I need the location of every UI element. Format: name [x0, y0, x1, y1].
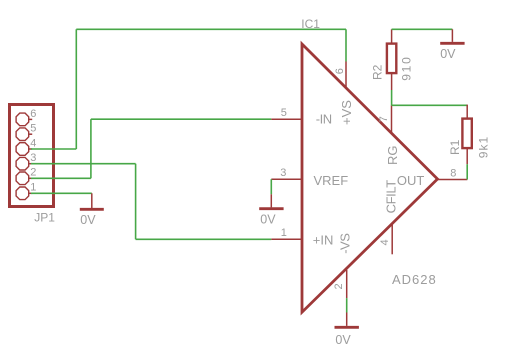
svg-text:IC1: IC1: [301, 17, 320, 31]
svg-text:2: 2: [333, 283, 345, 289]
pin 8 OUT stub: [438, 179, 468, 181]
ground 0V top right (stub): [451, 29, 453, 42]
JP1 pin 5 pad: [16, 128, 29, 141]
pin 7 RG stub: [391, 105, 393, 133]
ground 0V at VREF (stub): [270, 194, 272, 207]
svg-text:OUT: OUT: [397, 173, 425, 188]
pin 1 +IN stub: [271, 238, 303, 240]
ground 0V at VREF (green riser): [270, 179, 272, 194]
pin 6 +VS stub: [345, 62, 347, 89]
svg-text:2: 2: [30, 167, 36, 179]
wire down to pin 6 stub: [345, 29, 347, 61]
wire pin2 to bottom ground: [346, 298, 348, 312]
JP1 pin 2 tail: [29, 177, 33, 179]
wire junction to R1 column: [392, 104, 468, 106]
svg-text:R2: R2: [371, 64, 385, 80]
svg-text:6: 6: [334, 68, 346, 74]
JP1 pin 4 tail: [29, 148, 33, 150]
wire JP1 pin1 to ground: [31, 192, 92, 194]
ground 0V top right (bar): [440, 42, 464, 45]
wire JP1 pin2 horizontal: [31, 177, 91, 179]
ground 0V bottom (stub): [346, 313, 348, 326]
ground 0V at JP1 (bar): [80, 208, 104, 211]
svg-text:RG: RG: [385, 146, 400, 166]
svg-text:AD628: AD628: [392, 272, 437, 287]
JP1 pin 5 tail: [29, 133, 33, 135]
svg-text:0V: 0V: [80, 213, 96, 227]
svg-text:-VS: -VS: [338, 233, 353, 254]
svg-text:+VS: +VS: [339, 100, 354, 125]
wire vertical down at x=136: [135, 164, 137, 240]
svg-text:VREF: VREF: [314, 173, 349, 188]
JP1 pin 2 pad: [16, 172, 29, 185]
JP1 pin 1 pad: [16, 187, 29, 200]
R1 bottom stub: [466, 149, 468, 164]
svg-text:5: 5: [30, 123, 36, 135]
svg-text:1: 1: [30, 182, 36, 194]
ground 0V bottom (bar): [335, 326, 359, 329]
svg-text:3: 3: [280, 167, 286, 179]
wire to +IN pin 1: [136, 238, 272, 240]
ground 0V at VREF (bar): [259, 207, 283, 210]
wire to -IN pin 5: [91, 118, 271, 120]
svg-text:0V: 0V: [260, 212, 276, 226]
ground 0V at JP1 (stub): [91, 193, 93, 208]
pin 3 VREF stub: [271, 178, 303, 180]
svg-text:0V: 0V: [335, 333, 351, 347]
wire top horizontal run to IC1 +VS: [76, 28, 346, 30]
JP1 pin 6 tail: [29, 118, 33, 120]
R2 top stub: [391, 29, 393, 43]
pin 4 CFILT stub: [391, 225, 393, 255]
svg-text:8: 8: [450, 167, 456, 179]
resistor R2 body: [387, 44, 396, 74]
svg-text:0V: 0V: [440, 47, 456, 61]
wire R2 top net to ground: [392, 28, 453, 30]
svg-text:4: 4: [30, 137, 36, 149]
svg-text:R1: R1: [448, 139, 462, 155]
pin 5 -IN stub: [271, 118, 303, 120]
JP1 pin 6 pad: [16, 113, 29, 126]
svg-text:+IN: +IN: [313, 232, 334, 247]
wire JP1 pin3 horizontal: [31, 163, 136, 165]
R1 top stub: [466, 105, 468, 118]
R2 bottom stub: [391, 74, 393, 90]
connector JP1 body: [10, 105, 54, 207]
JP1 pin 4 pad: [16, 143, 29, 156]
svg-text:3: 3: [30, 152, 36, 164]
wire JP1 pin4 to +VS net (horizontal from pin 4): [31, 148, 76, 150]
JP1 pin 3 pad: [16, 157, 29, 170]
svg-text:5: 5: [281, 107, 287, 119]
op-amp IC1 triangle: [302, 44, 438, 312]
svg-text:9k1: 9k1: [476, 136, 490, 158]
JP1 pin 3 tail: [29, 163, 33, 165]
svg-text:JP1: JP1: [34, 211, 55, 225]
wire vertical up at x=91: [90, 119, 92, 178]
svg-text:4: 4: [379, 239, 391, 245]
JP1 pin 1 tail: [29, 192, 33, 194]
svg-text:6: 6: [30, 108, 36, 120]
svg-text:7: 7: [378, 116, 390, 122]
pin 2 -VS stub: [346, 270, 348, 298]
wire R1 bottom to OUT: [466, 164, 468, 179]
wire vertical up at x=76: [75, 29, 77, 149]
svg-text:910: 910: [400, 55, 414, 80]
resistor R1 body: [462, 119, 471, 149]
wire R2 bottom to pin7 junction: [391, 90, 393, 105]
svg-text:1: 1: [281, 227, 287, 239]
svg-text:-IN: -IN: [316, 112, 332, 127]
